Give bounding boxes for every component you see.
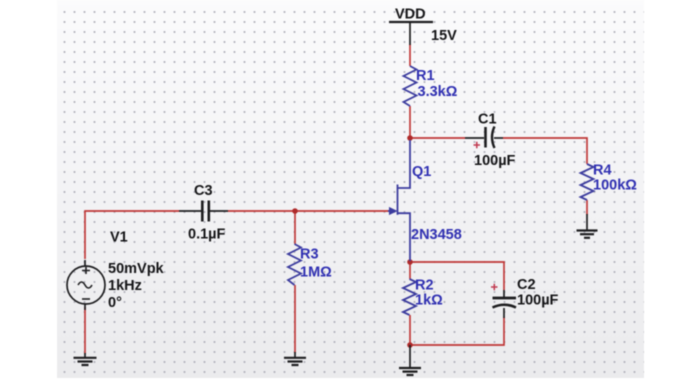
svg-text:100kΩ: 100kΩ <box>593 178 637 194</box>
svg-text:1MΩ: 1MΩ <box>300 265 332 281</box>
svg-text:R2: R2 <box>415 278 434 294</box>
svg-text:V1: V1 <box>110 230 128 246</box>
svg-text:VDD: VDD <box>395 7 426 23</box>
svg-text:100µF: 100µF <box>517 293 559 309</box>
svg-text:2N3458: 2N3458 <box>411 227 462 243</box>
svg-text:0.1µF: 0.1µF <box>188 227 226 243</box>
svg-text:50mVpk: 50mVpk <box>108 261 165 277</box>
svg-text:R4: R4 <box>593 163 612 179</box>
svg-text:C2: C2 <box>517 277 536 293</box>
svg-text:1kHz: 1kHz <box>108 278 142 294</box>
svg-text:R3: R3 <box>300 247 319 263</box>
svg-text:3.3kΩ: 3.3kΩ <box>418 84 458 100</box>
svg-text:1kΩ: 1kΩ <box>415 293 443 309</box>
svg-text:15V: 15V <box>431 28 457 44</box>
svg-text:0°: 0° <box>108 295 122 311</box>
svg-text:Q1: Q1 <box>412 164 431 180</box>
svg-text:C3: C3 <box>194 183 213 199</box>
svg-text:R1: R1 <box>416 68 435 84</box>
svg-text:100µF: 100µF <box>474 153 516 169</box>
svg-text:C1: C1 <box>478 112 497 128</box>
